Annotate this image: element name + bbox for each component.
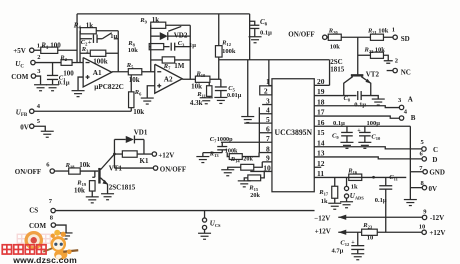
wire IC pin 17 to terminal B xyxy=(314,116,399,118)
ground A2 + input xyxy=(141,98,154,104)
capacitor C10 100u xyxy=(364,126,366,132)
IC pin 5 stub xyxy=(244,122,272,124)
wire relay loop left riser xyxy=(113,139,115,168)
ground R15 xyxy=(238,181,251,187)
svg-text:17: 17 xyxy=(317,108,325,117)
svg-text:0.1μ: 0.1μ xyxy=(354,101,366,108)
wire R2 to A1 inverting input xyxy=(72,62,83,64)
resistor R4 1k feedback xyxy=(79,30,81,32)
resistor R11 4.3k to ground xyxy=(208,82,210,85)
ground U-CS xyxy=(198,233,211,239)
resistor R2 100 xyxy=(61,60,72,66)
resistor R12 100k xyxy=(218,57,220,79)
capacitor C6 0.1u xyxy=(250,21,255,25)
svg-text:0.1μ: 0.1μ xyxy=(333,120,345,127)
wire C8 to ground xyxy=(361,96,378,99)
svg-text:3: 3 xyxy=(266,96,270,105)
svg-text:12: 12 xyxy=(317,159,325,168)
IC pin 2 NC box xyxy=(260,86,272,95)
terminal 8 COM bottom xyxy=(51,223,55,227)
svg-text:C: C xyxy=(433,146,438,154)
terminal 2 NC xyxy=(393,68,397,72)
wire +12V row with arrow xyxy=(338,231,361,233)
capacitor C2 1u with K1 contact xyxy=(80,38,92,40)
wire A2 + input to ground xyxy=(147,86,155,98)
terminal 2 Uc xyxy=(31,60,35,64)
resistor R3 100k feedback xyxy=(80,52,90,54)
ground R22 xyxy=(384,60,393,62)
IC pin 3 stub xyxy=(262,104,272,106)
ground U-ADS jack xyxy=(340,202,353,208)
svg-text:10: 10 xyxy=(419,224,426,231)
watermark red glyph text weiku xyxy=(2,245,46,254)
resistor R22 10k xyxy=(358,54,371,56)
ground R17 xyxy=(328,203,341,209)
wire R1 to +5V rail riser xyxy=(58,49,77,51)
svg-text:10k: 10k xyxy=(74,186,85,194)
svg-text:1: 1 xyxy=(37,42,40,49)
svg-text:2SC1815: 2SC1815 xyxy=(109,183,136,191)
svg-text:9: 9 xyxy=(266,154,270,163)
capacitor C8 0.1u xyxy=(357,91,359,100)
ground 0V xyxy=(41,131,54,137)
wire R10 to node xyxy=(210,78,221,80)
svg-text:2: 2 xyxy=(395,57,398,64)
op-amp A2 xyxy=(155,64,183,93)
svg-text:1M: 1M xyxy=(174,62,185,70)
resistor R7 1M feedback xyxy=(151,59,163,61)
capacitor C7 1000p xyxy=(221,142,223,146)
wire A1 + input to ground xyxy=(78,77,83,90)
resistor R14 20k xyxy=(228,167,241,169)
svg-text:SD: SD xyxy=(401,35,410,43)
wire bus to pin 20 xyxy=(329,60,331,86)
resistor R13 100k xyxy=(227,153,229,157)
capacitor C5 0.01u xyxy=(220,79,222,87)
svg-text:0.01μ: 0.01μ xyxy=(227,92,242,99)
svg-text:19: 19 xyxy=(317,87,325,96)
svg-text:1μ: 1μ xyxy=(110,33,117,40)
svg-text:20k: 20k xyxy=(250,192,260,199)
terminal 1 SD xyxy=(393,35,397,39)
watermark faded red glyph row xyxy=(17,234,62,243)
svg-text:6: 6 xyxy=(266,124,270,133)
svg-text:10k: 10k xyxy=(375,46,386,53)
terminal 4 Ufb xyxy=(30,109,34,113)
ground C12 xyxy=(351,254,364,260)
wire relay right riser xyxy=(143,139,145,154)
svg-text:16: 16 xyxy=(317,118,325,127)
svg-text:1μ: 1μ xyxy=(189,42,196,49)
jack U-ADS xyxy=(346,177,348,186)
resistor R19 10k to ground xyxy=(94,171,96,177)
terminal 7 GND xyxy=(423,170,427,174)
ground C9 xyxy=(340,142,353,148)
svg-text:15: 15 xyxy=(317,128,325,137)
ground C7 xyxy=(202,153,204,157)
svg-text:VT2: VT2 xyxy=(366,71,380,79)
IC U1 UCC3895N body xyxy=(272,79,314,192)
ground R11 xyxy=(200,98,213,104)
terminal 3 A xyxy=(399,105,403,109)
wire collector node to ON/OFF output xyxy=(114,167,153,169)
svg-text:COM: COM xyxy=(29,222,47,230)
svg-text:VD2: VD2 xyxy=(174,31,188,39)
ground C6 xyxy=(249,37,262,43)
resistor R5 10k series xyxy=(128,69,142,75)
svg-text:10: 10 xyxy=(263,163,271,172)
wire R4 to feedback right riser xyxy=(96,30,118,32)
svg-text:13: 13 xyxy=(317,149,325,158)
svg-text:+12V: +12V xyxy=(158,151,174,159)
terminal 5 C xyxy=(422,147,426,151)
wire bus to ground drop xyxy=(247,60,249,117)
ground R14 xyxy=(221,170,234,176)
wire Ufb row xyxy=(34,110,131,112)
svg-text:20k: 20k xyxy=(243,155,253,162)
ground GND 0V riser xyxy=(404,200,417,206)
svg-text:1k: 1k xyxy=(152,16,160,24)
terminal 6 ON/OFF xyxy=(50,169,54,173)
wire top +5V rail xyxy=(77,13,250,15)
ground COM xyxy=(34,85,47,91)
svg-text:B: B xyxy=(411,114,416,122)
ground bus drop xyxy=(241,117,254,123)
terminal 7 CS xyxy=(51,208,55,212)
svg-text:11: 11 xyxy=(317,169,324,178)
wire junction down to VT2 base xyxy=(357,37,359,74)
terminal 1 +5V xyxy=(30,48,34,52)
svg-text:+: + xyxy=(351,240,355,246)
svg-text:0V: 0V xyxy=(20,123,29,131)
node dot pin11 net xyxy=(372,176,375,179)
wire R20 to junction xyxy=(341,36,370,38)
svg-text:10k: 10k xyxy=(378,27,389,34)
svg-text:VD1: VD1 xyxy=(134,128,148,136)
svg-text:+: + xyxy=(88,39,92,46)
svg-text:K1: K1 xyxy=(140,157,149,165)
resistor R20 10k xyxy=(328,34,341,40)
svg-text:0.1μ: 0.1μ xyxy=(260,29,272,36)
wire bus to pin 1 xyxy=(268,60,270,86)
transistor VT2 2SC1815 xyxy=(351,74,364,76)
wire 0V to ground xyxy=(34,126,45,131)
resistor R15 20k xyxy=(244,178,248,181)
ground COM bottom xyxy=(60,233,73,239)
op-amp A1 uPC822C xyxy=(83,58,112,87)
ground C1 xyxy=(46,85,59,91)
svg-text:1k: 1k xyxy=(86,21,94,29)
terminal 6 D xyxy=(422,157,426,161)
svg-text:20: 20 xyxy=(317,77,325,86)
terminal 10 +12V xyxy=(422,230,426,234)
svg-text:14: 14 xyxy=(317,138,325,147)
resistor R21 10k xyxy=(370,34,383,40)
terminal 9 -12V xyxy=(422,215,426,219)
terminal 3 COM xyxy=(31,74,35,78)
ground VT1 emitter xyxy=(101,194,114,200)
wire IC pin 19 to C8 xyxy=(314,95,356,97)
svg-text:10k: 10k xyxy=(129,76,140,84)
svg-text:18: 18 xyxy=(317,97,325,106)
wire ON/OFF to R18 xyxy=(54,170,68,172)
wire COM bottom to ground xyxy=(56,225,67,233)
wire A2 feedback left riser xyxy=(150,25,152,72)
capacitor C11 0.1u xyxy=(385,177,387,185)
svg-text:ON/OFF: ON/OFF xyxy=(288,30,314,38)
node dot collector K1 xyxy=(113,153,116,156)
terminal 8 0V xyxy=(422,185,426,189)
ground C8 xyxy=(372,99,385,105)
svg-text:8: 8 xyxy=(266,144,270,153)
resistor R23 10 xyxy=(362,229,378,235)
diode VD2 with K1 contact xyxy=(151,35,160,37)
resistor R17 1k to ground xyxy=(334,177,336,186)
svg-text:1k: 1k xyxy=(351,183,358,190)
ground C10 xyxy=(358,142,371,148)
wire GND 0V riser xyxy=(409,126,411,199)
svg-text:μPC822C: μPC822C xyxy=(94,83,124,91)
wire COM to ground xyxy=(36,76,41,84)
watermark gear badge xyxy=(24,231,43,250)
terminal ON/OFF relay output xyxy=(153,166,157,170)
IC pin 12 stub xyxy=(314,166,321,168)
svg-text:+: + xyxy=(357,128,361,134)
relay coil K1 xyxy=(114,153,122,155)
svg-text:0.1μ: 0.1μ xyxy=(58,80,70,87)
jack U-CS xyxy=(204,211,206,218)
watermark mascot monkey xyxy=(43,230,78,260)
wire rail drop to horizontal bus xyxy=(249,14,251,60)
wire R5 to A2 inverting input xyxy=(142,71,155,73)
svg-text:CS: CS xyxy=(29,206,38,214)
wire horizontal bus y59 xyxy=(219,59,330,61)
wire CS row xyxy=(55,210,314,212)
svg-text:0V: 0V xyxy=(429,185,438,193)
resistor R16 1k xyxy=(349,174,362,180)
svg-text:-12V: -12V xyxy=(430,214,444,222)
svg-text:GND: GND xyxy=(429,169,445,177)
svg-text:A2: A2 xyxy=(164,75,173,83)
capacitor C1 0.1u xyxy=(52,63,54,76)
diode VD1 flyback xyxy=(114,138,125,140)
resistor R18 10k xyxy=(69,168,81,174)
transistor VT1 2SC1815 xyxy=(98,168,100,184)
svg-text:10k: 10k xyxy=(330,43,341,50)
svg-text:4: 4 xyxy=(266,105,270,114)
svg-text:100k: 100k xyxy=(93,57,108,65)
wire A2 output xyxy=(182,78,195,80)
wire A1 feedback left riser xyxy=(79,31,81,63)
IC pin 8 stub xyxy=(259,152,272,154)
wire IC pin 14 to terminal C xyxy=(314,147,421,149)
svg-text:10: 10 xyxy=(367,235,374,242)
svg-text:UCC3895N: UCC3895N xyxy=(275,128,313,137)
wire A2 feedback right riser xyxy=(189,25,191,79)
IC pin 10 stub xyxy=(250,170,272,172)
ground C5 xyxy=(214,97,227,103)
capacitor C9 0.1u xyxy=(346,126,348,132)
resistor R8 10k with capacitor C3 1u xyxy=(149,46,151,48)
wire +5V to R1 xyxy=(34,49,41,51)
svg-text:NC: NC xyxy=(401,68,411,76)
wire -12V row with arrow xyxy=(338,216,422,218)
svg-text:+12V: +12V xyxy=(429,229,445,237)
ground R19 xyxy=(86,197,99,203)
ground A1 + input xyxy=(72,91,85,97)
svg-text:A: A xyxy=(408,95,413,103)
svg-text:10k: 10k xyxy=(79,161,90,169)
svg-text:100k: 100k xyxy=(225,148,238,155)
svg-text:1k: 1k xyxy=(321,198,328,205)
IC pin 4 stub xyxy=(259,113,272,115)
svg-text:100: 100 xyxy=(50,41,61,49)
IC pin 7 wire xyxy=(221,141,272,143)
svg-text:ON/OFF: ON/OFF xyxy=(160,166,186,174)
resistor R9 1k feedback xyxy=(151,22,166,28)
terminal 5 0V xyxy=(30,124,34,128)
wire Uc to R2 xyxy=(35,62,61,64)
IC pin 6 stub xyxy=(259,132,272,134)
svg-text:COM: COM xyxy=(11,73,29,81)
svg-text:−12V: −12V xyxy=(314,215,330,223)
svg-text:1: 1 xyxy=(266,77,270,86)
svg-text:100μ: 100μ xyxy=(367,120,381,127)
wire +5V rail riser xyxy=(76,14,78,63)
svg-text:10k: 10k xyxy=(191,82,202,90)
wire feedback right riser xyxy=(117,31,119,72)
svg-text:+5V: +5V xyxy=(13,47,26,55)
svg-text:2: 2 xyxy=(37,54,40,61)
svg-text:5: 5 xyxy=(266,115,270,124)
svg-text:A1: A1 xyxy=(93,69,102,77)
svg-text:+12V: +12V xyxy=(315,227,331,235)
svg-text:100k: 100k xyxy=(222,48,236,55)
wire IC pin 18 to terminal A xyxy=(314,106,399,108)
svg-text:4.7μ: 4.7μ xyxy=(332,248,344,255)
svg-text:1: 1 xyxy=(392,26,395,33)
wire IC pin 16 VREF row xyxy=(314,125,410,127)
terminal 4 B xyxy=(399,116,403,120)
wire ON/OFF to R20 xyxy=(327,36,329,38)
wire R23 to terminal 10 xyxy=(377,231,422,233)
svg-text:10k: 10k xyxy=(128,47,139,54)
svg-text:D: D xyxy=(432,156,437,164)
capacitor C12 4.7u electrolytic xyxy=(357,232,359,245)
svg-text:1815: 1815 xyxy=(330,65,345,73)
IC pins 3-7 bus xyxy=(258,107,260,152)
svg-text:10k: 10k xyxy=(133,108,144,116)
wire IC pin 11 row xyxy=(314,176,406,178)
svg-text:1000p: 1000p xyxy=(217,136,233,143)
wire A1 output xyxy=(112,71,129,73)
svg-text:2: 2 xyxy=(264,86,268,95)
IC pin 9 stub xyxy=(262,161,272,163)
wire R9 to right riser xyxy=(166,24,191,26)
svg-text:4.3k: 4.3k xyxy=(190,99,203,107)
svg-text:ON/OFF: ON/OFF xyxy=(15,168,41,176)
wire IC pin 13 to terminal D xyxy=(314,157,422,159)
resistor R1 100 xyxy=(41,47,58,53)
resistor R6 10k to Ufb xyxy=(130,75,132,92)
wire R21 to SD terminal xyxy=(383,36,393,38)
svg-text:0.1μ: 0.1μ xyxy=(375,197,387,204)
svg-text:www.dzsc.com: www.dzsc.com xyxy=(12,255,77,264)
resistor R10 10k xyxy=(195,76,210,82)
wire R18 to VT1 base xyxy=(80,170,98,172)
terminal +12V relay xyxy=(152,152,156,156)
svg-text:7: 7 xyxy=(266,134,270,143)
terminal ON/OFF top xyxy=(323,35,327,39)
